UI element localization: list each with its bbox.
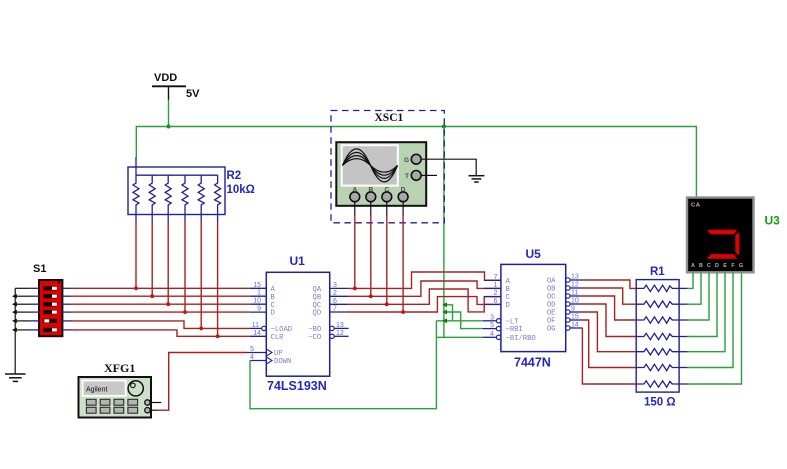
wire S1 pin 7 right stub (62, 287, 71, 289)
wire XSC1 G to ground (421, 159, 476, 176)
U1 pin 2 QB (313, 290, 348, 302)
display U3 body (687, 198, 754, 273)
wire R1 right stub (679, 351, 688, 353)
svg-text:C: C (271, 302, 276, 310)
label R1 value 150 Ohm (644, 397, 676, 409)
svg-text:2: 2 (494, 290, 498, 297)
wire S1 pin 9 right stub (62, 303, 71, 305)
wire U5 OG to R1-7 (582, 328, 636, 384)
svg-text:DOWN: DOWN (274, 358, 291, 366)
node junction R2-3 (150, 294, 154, 298)
svg-text:XSC1: XSC1 (375, 112, 404, 124)
svg-text:OD: OD (547, 302, 556, 310)
node S1 rail junction (12, 319, 17, 324)
svg-text:U5: U5 (526, 247, 542, 261)
svg-text:QD: QD (313, 310, 322, 318)
wire S1-4 to U1 D (71, 311, 249, 313)
wire R1 right stub (679, 383, 688, 385)
U1 pin 6 QC (313, 298, 348, 310)
U1 pin 7 QD (313, 306, 348, 318)
svg-text:~BO: ~BO (308, 326, 321, 334)
U1 pin 11 ~LOAD (250, 322, 292, 334)
U1 pin 10 C (250, 298, 276, 310)
node VDD-XSC1 junction (442, 125, 446, 129)
U5 pin 10 OD (547, 298, 583, 310)
wire S1 pin 5 to ground rail (15, 320, 28, 322)
U5 pin 5 ~RBI (483, 322, 523, 334)
wire S1 pin 8 right stub (62, 295, 71, 297)
svg-text:C: C (384, 187, 389, 194)
U1 pin 1 B (250, 290, 276, 302)
svg-text:D: D (401, 187, 406, 194)
node junction R2-4 (166, 302, 170, 306)
svg-text:D: D (715, 263, 719, 269)
wire U3 segment A to R1 (687, 273, 693, 289)
wire U5 OD to R1-4 (582, 304, 636, 337)
wire S1 pin 11 right stub (62, 320, 71, 322)
wire R1 right stub (679, 287, 688, 289)
wire U1 QA to U5 A (347, 272, 501, 288)
U5 pin 9 OE (547, 306, 583, 318)
U1 pin 12 ~CO (308, 330, 348, 342)
wire R2 pin 3 stub (151, 215, 153, 222)
wire R1 right stub (679, 367, 688, 369)
svg-text:A: A (691, 263, 695, 269)
wire XFG1 to U1 UP (158, 353, 247, 411)
svg-text:5: 5 (490, 322, 494, 329)
svg-text:10kΩ: 10kΩ (227, 184, 255, 196)
wire S1 pin 4 to ground rail (15, 311, 28, 313)
svg-text:11: 11 (571, 290, 578, 297)
svg-text:S1: S1 (33, 263, 46, 275)
label XSC1 (375, 112, 404, 124)
IC U1 body (266, 272, 329, 376)
svg-text:A: A (352, 187, 357, 194)
svg-text:OE: OE (547, 310, 556, 318)
svg-text:~BI/RBO: ~BI/RBO (506, 335, 536, 343)
svg-text:~LT: ~LT (506, 318, 520, 326)
U5 pin 4 ~BI/RBO (483, 331, 536, 343)
wire U5 OF to R1-6 (582, 320, 636, 368)
svg-text:11: 11 (252, 322, 259, 329)
wire VDD to R2 (135, 126, 137, 158)
wire green vertical to bottom loop (435, 321, 437, 409)
wire U5 OA to R1-1 (582, 280, 636, 288)
wire green to U1 DOWN (249, 361, 251, 410)
wire S1 pin 12 right stub (62, 329, 71, 331)
svg-text:T: T (405, 173, 409, 180)
wire S1 pin 1 to ground rail (15, 287, 28, 289)
ground XSC1 (469, 176, 485, 182)
node VDD junction (167, 125, 171, 129)
label U5 (526, 247, 542, 261)
svg-text:13: 13 (571, 274, 579, 281)
wire U5 OC to R1-3 (582, 296, 636, 320)
svg-text:7: 7 (494, 274, 498, 281)
svg-text:15: 15 (571, 314, 579, 321)
svg-text:B: B (271, 294, 276, 302)
svg-text:6: 6 (333, 298, 337, 305)
node S1 rail junction (12, 294, 17, 299)
svg-text:4: 4 (250, 354, 254, 361)
wire U5 OE to R1-5 (582, 312, 636, 352)
switch S1 body (39, 280, 62, 336)
svg-text:~CO: ~CO (308, 334, 321, 342)
wire S1 pin 2 to ground rail (15, 295, 28, 297)
wire S1-2 to U1 B (71, 295, 249, 297)
wire XSC1 channel D probe (402, 202, 404, 312)
label U1 part 74LS193N (267, 379, 327, 393)
svg-text:14: 14 (571, 322, 579, 329)
U1 pin 15 A (250, 282, 276, 294)
svg-text:10: 10 (253, 298, 261, 305)
svg-text:9: 9 (571, 306, 575, 313)
node QD scope junction (401, 310, 405, 314)
U1 pin 14 CLR (250, 330, 284, 342)
svg-text:E: E (723, 263, 727, 269)
wire R1 right stub (679, 303, 688, 305)
svg-text:XFG1: XFG1 (104, 361, 135, 375)
wire VDD to U3 CA (695, 126, 697, 199)
wire VDD vertical drop (168, 100, 170, 128)
wire R1 right stub (679, 319, 688, 321)
U5 pin 14 OG (547, 322, 583, 334)
node junction R2-7 (216, 334, 220, 338)
wire VDD down to U5 area (443, 126, 445, 338)
node QC scope junction (385, 302, 389, 306)
node QB scope junction (369, 294, 373, 298)
wire R2 pin 4 drop (167, 222, 169, 305)
wire R2 pin 5 drop (184, 222, 186, 313)
wire green net main drop jog1 (444, 305, 453, 321)
label R2 (227, 170, 242, 182)
svg-text:D: D (271, 310, 275, 318)
wire R2 pin 3 drop (151, 222, 153, 297)
U1 pin 4 DOWN (250, 354, 291, 366)
wire XSC1 channel A probe (354, 202, 356, 289)
svg-text:3: 3 (490, 314, 494, 321)
node S1 rail junction (12, 328, 17, 333)
wire U3 segment E to R1 (687, 273, 725, 352)
node green junction a (442, 302, 447, 307)
wire U1 QB to U5 B (347, 281, 501, 296)
svg-text:B: B (368, 187, 373, 194)
wire S1 pin 10 right stub (62, 311, 71, 313)
wire S1 pin 1 left stub (28, 287, 39, 289)
svg-text:1: 1 (257, 290, 261, 297)
wire U3 segment G to R1 (687, 273, 741, 385)
wire S1 ground rail vertical (14, 288, 16, 374)
svg-text:1: 1 (494, 282, 498, 289)
svg-text:CA: CA (691, 203, 701, 209)
svg-text:C: C (506, 294, 511, 302)
svg-text:A: A (271, 286, 276, 294)
label U1 (290, 254, 306, 268)
svg-text:G: G (739, 263, 743, 269)
U5 pin 12 OB (547, 282, 583, 294)
power VDD 5V symbol (152, 72, 200, 100)
U5 pin 11 OC (547, 290, 583, 302)
svg-text:D: D (506, 302, 510, 310)
U5 pin 6 D (484, 298, 510, 310)
wire U1 QC to U5 C (347, 289, 501, 312)
svg-text:OB: OB (547, 286, 556, 294)
wire S1 pin 5 left stub (28, 320, 39, 322)
svg-text:U3: U3 (765, 214, 781, 228)
svg-text:2: 2 (333, 290, 337, 297)
U1 pin 5 UP (247, 346, 283, 358)
U5 pin 15 OF (547, 314, 583, 326)
wire XSC1 channel C probe (386, 202, 388, 304)
instrument box XSC1 dashed border (331, 111, 444, 223)
wire R2 pin 7 stub (217, 215, 219, 222)
wire R2 pin 4 stub (167, 215, 169, 222)
svg-text:QA: QA (313, 286, 322, 294)
svg-text:U1: U1 (290, 254, 306, 268)
node junction R2-5 (183, 310, 187, 314)
svg-text:OC: OC (547, 294, 556, 302)
U5 pin 3 ~LT (483, 314, 519, 326)
wire U3 segment D to R1 (687, 273, 717, 337)
function generator XFG1 (79, 377, 152, 418)
U5 pin 1 B (484, 282, 510, 294)
resistor pack R2 (128, 157, 225, 215)
wire U3 segment B to R1 (687, 273, 701, 305)
IC U5 body (501, 264, 566, 351)
wire R1 right stub (679, 336, 688, 338)
svg-text:12: 12 (571, 282, 579, 289)
svg-text:9: 9 (257, 306, 261, 313)
svg-text:G: G (404, 157, 409, 164)
wire R2 pin 6 stub (200, 215, 202, 222)
label U3 (765, 214, 781, 228)
wire green net to U5 ~LT (436, 320, 482, 322)
svg-text:4: 4 (490, 331, 494, 338)
label U5 part 7447N (514, 356, 551, 370)
svg-text:150 Ω: 150 Ω (644, 397, 676, 409)
svg-text:5: 5 (250, 346, 254, 353)
svg-text:7447N: 7447N (514, 356, 551, 370)
svg-text:15: 15 (253, 282, 261, 289)
svg-text:Agilent: Agilent (86, 387, 107, 394)
svg-text:VDD: VDD (154, 72, 177, 84)
node S1 rail junction (12, 310, 17, 315)
wire green net jog2 to U5 ~RBI (444, 312, 483, 329)
U1 pin 13 ~BO (308, 322, 348, 334)
svg-text:~LOAD: ~LOAD (271, 326, 293, 334)
U1 pin 9 D (250, 306, 275, 318)
U5 pin 7 A (484, 274, 510, 286)
svg-text:7: 7 (333, 306, 337, 313)
wire S1 pin 2 left stub (28, 295, 39, 297)
node QA scope junction (353, 287, 357, 291)
svg-text:10: 10 (571, 298, 579, 305)
ground S1 (5, 374, 26, 381)
svg-text:6: 6 (494, 298, 498, 305)
label S1 (33, 263, 46, 275)
svg-text:OA: OA (547, 278, 556, 286)
wire R2 pin 5 stub (184, 215, 186, 222)
svg-text:OF: OF (547, 318, 556, 326)
svg-text:OG: OG (547, 326, 556, 334)
wire R2 pin 6 drop (200, 222, 202, 329)
node green junction c (442, 318, 447, 323)
svg-text:B: B (699, 263, 703, 269)
wire U3 segment C to R1 (687, 273, 709, 321)
wire R2 pin 7 drop (217, 222, 219, 337)
wire S1 pin 3 to ground rail (15, 303, 28, 305)
node junction R2-6 (199, 327, 203, 331)
wire S1-6 to U1 CLR (71, 330, 249, 336)
U1 pin 3 QA (313, 282, 348, 294)
wire S1 pin 6 left stub (28, 329, 39, 331)
node green junction b (442, 310, 447, 315)
wire green bottom horizontal (249, 408, 437, 410)
wire XSC1 channel B probe (370, 202, 372, 296)
node junction R2-2 (134, 286, 138, 290)
svg-text:5V: 5V (186, 88, 200, 100)
wire U1 QD to U5 D (347, 297, 501, 312)
svg-text:74LS193N: 74LS193N (267, 379, 327, 393)
svg-text:14: 14 (253, 330, 261, 337)
svg-text:13: 13 (336, 322, 344, 329)
svg-text:QB: QB (313, 294, 322, 302)
svg-text:B: B (506, 286, 511, 294)
wire XSC1 T stub (421, 174, 437, 176)
svg-text:UP: UP (274, 350, 283, 358)
svg-text:12: 12 (336, 330, 344, 337)
wire S1 pin 4 left stub (28, 311, 39, 313)
wire R2 pin 2 stub (135, 215, 137, 222)
wire U5 OB to R1-2 (582, 288, 636, 304)
svg-text:3: 3 (333, 282, 337, 289)
svg-text:CLR: CLR (271, 334, 285, 342)
svg-text:C: C (707, 263, 711, 269)
wire S1 pin 6 to ground rail (15, 329, 28, 331)
resistor pack R1 (636, 280, 679, 393)
wire S1-5 to U1 ~LOAD (71, 321, 249, 329)
U5 pin 13 OA (547, 274, 583, 286)
svg-text:A: A (506, 278, 511, 286)
wire XFG1 output stub (150, 409, 158, 411)
wire VDD bus horizontal (136, 126, 696, 128)
wire S1 pin 3 left stub (28, 303, 39, 305)
label R1 (650, 266, 665, 278)
svg-text:~RBI: ~RBI (506, 326, 523, 334)
wire S1-3 to U1 C (71, 303, 249, 305)
wire S1-1 to U1 A (71, 287, 249, 289)
label XFG1 (104, 361, 135, 375)
wire green net to U5 ~BI/RBO (436, 336, 482, 338)
wire U3 segment F to R1 (687, 273, 733, 368)
oscilloscope XSC1 body (336, 142, 426, 206)
svg-text:R2: R2 (227, 170, 242, 182)
node S1 rail junction (12, 302, 17, 307)
wire R2 pin 2 drop (135, 222, 137, 289)
label R2 value 10kOhm (227, 184, 255, 196)
U5 pin 2 C (484, 290, 510, 302)
wire XFG1 trigger stub (150, 402, 161, 404)
svg-text:R1: R1 (650, 266, 665, 278)
